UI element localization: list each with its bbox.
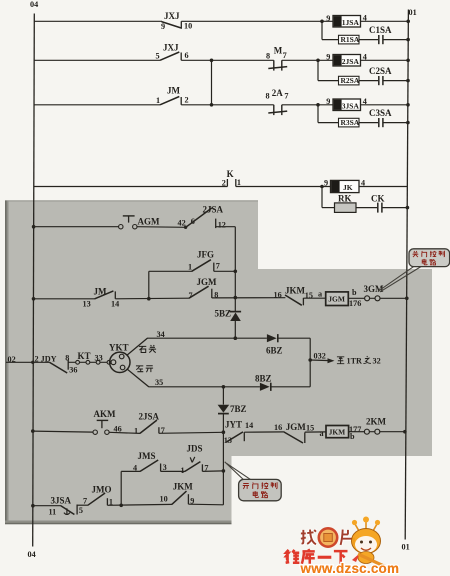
svg-text:JGM: JGM <box>328 295 345 304</box>
svg-text:7: 7 <box>83 496 87 505</box>
resistor R3SA <box>339 118 360 127</box>
svg-text:C3SA: C3SA <box>369 108 392 118</box>
node 04 bottom label <box>28 550 36 559</box>
gray region top edge line <box>5 200 258 202</box>
switch JM 13-14 <box>83 286 120 308</box>
pushbutton AGM <box>119 216 160 229</box>
svg-text:34: 34 <box>157 330 165 339</box>
svg-text:R1SA: R1SA <box>341 35 360 44</box>
svg-text:2: 2 <box>222 178 226 187</box>
diode 5BZ <box>215 298 242 340</box>
svg-text:2JSA: 2JSA <box>139 411 160 421</box>
label you-guan <box>139 345 156 353</box>
relay coil JKM (a-b 177) <box>326 425 361 441</box>
relay coil 1JSA <box>326 14 367 28</box>
svg-text:2 JDY: 2 JDY <box>35 354 57 363</box>
svg-text:7BZ: 7BZ <box>230 404 247 414</box>
svg-text:a: a <box>320 429 324 438</box>
wire R2SA to C2SA <box>359 80 378 82</box>
wire row1 left segment <box>34 20 162 22</box>
wire 8BZ to corner <box>271 386 310 388</box>
svg-text:3JSA: 3JSA <box>51 495 72 505</box>
switch JGM 16-15 lower <box>274 422 314 443</box>
wire 2JSA to JYT node <box>159 432 224 433</box>
svg-text:1: 1 <box>237 178 241 187</box>
svg-text:JDS: JDS <box>187 444 203 454</box>
svg-text:9: 9 <box>326 53 330 62</box>
wire YKT left-open blade <box>127 369 148 387</box>
svg-text:JMS: JMS <box>138 451 156 461</box>
node junction row1 <box>320 20 324 24</box>
wire JFG branch vertical <box>147 271 151 300</box>
svg-text:04: 04 <box>30 0 38 9</box>
wire row2 left segment <box>34 59 160 61</box>
switch JDS 1-7 <box>181 444 209 476</box>
svg-text:JMO: JMO <box>92 484 112 494</box>
relay coil JGM (a-b 176) <box>326 288 362 308</box>
switch JKM 10-9 <box>160 482 195 506</box>
svg-text:8: 8 <box>266 51 270 60</box>
wire node 032 output arrow <box>310 352 334 364</box>
watermark weiku yixia <box>286 549 348 564</box>
wire branch row2 down <box>318 60 339 80</box>
wire AKM row from left rail <box>31 429 93 433</box>
svg-text:1JSA: 1JSA <box>342 18 360 27</box>
svg-text:14: 14 <box>111 299 119 308</box>
svg-text:6: 6 <box>191 217 195 226</box>
wire JKM coil to 2KM <box>349 431 365 433</box>
svg-text:JKM: JKM <box>285 286 306 296</box>
contact M 8-7 <box>266 45 287 70</box>
capacitor C2SA <box>369 66 392 85</box>
wire 3GM to right rail <box>380 297 409 301</box>
svg-text:42: 42 <box>178 219 186 228</box>
svg-text:5: 5 <box>79 506 83 515</box>
wire row1 to relay 1JSA <box>181 20 333 22</box>
switch JXJ 9-10 <box>161 11 192 31</box>
svg-text:2KM: 2KM <box>366 417 387 427</box>
svg-text:RK: RK <box>338 194 352 204</box>
wire bottom row from left rail <box>31 504 61 508</box>
switch JFG 1-7 <box>149 250 220 272</box>
wire JFG to node <box>214 270 236 272</box>
capacitor C3SA <box>369 108 392 127</box>
svg-text:9: 9 <box>326 97 330 106</box>
svg-text:04: 04 <box>28 550 36 559</box>
contact 2A 8-7 <box>266 88 289 115</box>
diode 7BZ <box>218 404 247 432</box>
pushbutton AKM 46 <box>93 409 122 434</box>
svg-text:YKT: YKT <box>109 343 129 353</box>
svg-text:KT: KT <box>78 351 91 361</box>
wire K row to relay JK <box>236 185 331 189</box>
relay coil 3JSA <box>326 97 367 111</box>
wire JYT to JGM lower <box>244 431 284 433</box>
svg-text:JFG: JFG <box>197 250 214 260</box>
svg-text:4: 4 <box>133 463 137 472</box>
svg-text:9: 9 <box>324 178 328 187</box>
svg-text:01: 01 <box>409 8 417 17</box>
wire 3JSA to JMO <box>77 504 88 506</box>
svg-text:JGM: JGM <box>286 422 307 432</box>
wire R3SA to C3SA <box>359 122 378 124</box>
label zuo-kai <box>136 366 153 372</box>
wire row2 to rail <box>361 59 410 63</box>
resistor R2SA <box>339 76 360 85</box>
svg-text:3JSA: 3JSA <box>342 101 360 110</box>
svg-text:16: 16 <box>274 291 282 300</box>
svg-text:M: M <box>274 45 283 55</box>
wire row2 to relay 2JSA <box>282 59 333 63</box>
wire line 34 <box>147 330 267 339</box>
svg-text:www.dzsc.com: www.dzsc.com <box>300 561 400 576</box>
svg-text:11: 11 <box>49 507 57 516</box>
svg-text:01: 01 <box>402 543 410 552</box>
node 01 top label <box>409 8 417 17</box>
contact 3GM <box>364 284 385 301</box>
wire 02 row from edge <box>6 354 57 364</box>
switch JYT 13-14 <box>224 419 253 445</box>
switch 2JDY 8-36 <box>50 353 78 374</box>
svg-text:8BZ: 8BZ <box>255 374 272 384</box>
gray region bottom shadow edge <box>5 521 232 525</box>
wire JDS to vertical node <box>202 470 223 473</box>
wire JM row from left rail <box>32 297 95 301</box>
svg-text:6BZ: 6BZ <box>266 346 283 356</box>
relay coil 2JSA <box>326 53 367 67</box>
svg-text:CK: CK <box>371 194 385 204</box>
contact chain KT 33 <box>68 351 111 364</box>
master controller YKT <box>109 343 130 373</box>
svg-text:2: 2 <box>185 96 189 105</box>
callout box guanmen control circuit <box>378 249 450 292</box>
wire JK to rail <box>359 186 408 188</box>
svg-text:9: 9 <box>161 22 165 31</box>
svg-text:10: 10 <box>184 22 192 31</box>
svg-text:7: 7 <box>216 262 220 271</box>
wire left rail 04 <box>33 14 35 547</box>
svg-text:36: 36 <box>69 365 77 374</box>
capacitor CK <box>371 194 385 213</box>
switch 3JSA 11-5 <box>49 495 83 516</box>
wire row3 left segment <box>34 104 160 106</box>
svg-text:C1SA: C1SA <box>369 25 392 35</box>
wire vertical node 12 down <box>234 227 238 300</box>
svg-text:R3SA: R3SA <box>341 118 360 127</box>
svg-text:AGM: AGM <box>138 217 161 227</box>
svg-text:176: 176 <box>349 299 361 308</box>
resistor R1SA <box>339 35 360 44</box>
diode 8BZ <box>255 374 272 391</box>
wire 6BZ to corner <box>278 337 310 339</box>
svg-text:1: 1 <box>188 263 192 272</box>
svg-text:12: 12 <box>218 220 226 229</box>
contact 2KM <box>364 417 386 435</box>
svg-text:3: 3 <box>163 463 167 472</box>
svg-text:7: 7 <box>283 51 287 60</box>
wire 2JSA to corner <box>216 226 236 228</box>
switch JKM 16-15 <box>274 286 313 306</box>
wire vertical 35 to bottom <box>222 387 224 405</box>
resistor RK <box>335 194 357 213</box>
svg-text:16: 16 <box>274 423 282 432</box>
wire K row left segment <box>34 186 228 188</box>
svg-text:33: 33 <box>95 353 103 362</box>
wire 2KM to right rail <box>380 430 407 434</box>
relay coil JK <box>324 178 365 192</box>
wire bottom row to corner <box>188 503 223 506</box>
svg-text:2JSA: 2JSA <box>203 205 224 215</box>
wire AGM row from left rail <box>32 225 119 229</box>
svg-text:7: 7 <box>189 291 193 300</box>
wire JGM coil to 3GM <box>348 297 364 299</box>
svg-text:02: 02 <box>8 355 16 364</box>
wire C3SA to rail <box>383 121 410 125</box>
switch JMS 4-3 <box>121 451 166 472</box>
switch JMO 7-1 <box>83 484 113 506</box>
svg-text:10: 10 <box>160 495 168 504</box>
switch 2JSA 42-6-12 <box>178 205 226 230</box>
switch JXJ 5-6 <box>156 43 189 61</box>
svg-text:K: K <box>227 169 234 179</box>
wire row3 to relay 3JSA <box>282 103 333 107</box>
wire YKT right-close blade <box>127 338 147 355</box>
wire JGM to JKM <box>212 297 286 299</box>
wire row3 middle <box>181 104 274 106</box>
wire row1 to right rail <box>361 20 411 24</box>
svg-text:JK: JK <box>343 183 353 192</box>
svg-text:C2SA: C2SA <box>369 66 392 76</box>
wire branch K row down <box>322 187 335 208</box>
svg-text:AKM: AKM <box>94 409 117 419</box>
svg-text:JKM: JKM <box>173 482 194 492</box>
wire JGM to relay JKM <box>305 429 326 438</box>
svg-text:JYT: JYT <box>225 419 242 429</box>
svg-text:JXJ: JXJ <box>163 43 179 53</box>
wire vertical 34-35 junction <box>308 338 312 387</box>
gray scanned region <box>5 201 432 525</box>
svg-text:9: 9 <box>326 14 330 23</box>
svg-text:1: 1 <box>181 466 185 475</box>
wire JMO to JKM lower <box>107 503 172 506</box>
svg-text:7: 7 <box>284 91 288 100</box>
svg-text:8: 8 <box>65 353 69 362</box>
wire vertical row2-row3 <box>210 60 214 106</box>
svg-text:5BZ: 5BZ <box>215 309 232 319</box>
wire R1SA to C1SA <box>359 39 378 41</box>
wire C1SA to rail <box>383 38 410 42</box>
svg-text:032: 032 <box>314 352 326 361</box>
wire line 35 <box>149 378 260 389</box>
wire JMS to JDS <box>161 470 186 472</box>
wire row2 middle <box>181 59 274 63</box>
wire C2SA to rail <box>383 79 410 83</box>
svg-text:6: 6 <box>185 51 189 60</box>
svg-text:JGM: JGM <box>197 277 218 287</box>
wire row3 to rail <box>361 103 410 107</box>
svg-text:b: b <box>350 432 355 441</box>
wire branch row3 down <box>318 105 339 123</box>
svg-text:14: 14 <box>245 421 253 430</box>
wire AGM to 2JSA contact <box>137 226 187 229</box>
svg-text:8: 8 <box>266 91 270 100</box>
svg-text:13: 13 <box>83 300 91 309</box>
callout box kaimen control circuit <box>225 462 282 501</box>
watermark zhao chip pian <box>301 528 354 546</box>
watermark www.dzsc.com <box>300 561 400 576</box>
switch JGM 7-8 <box>189 277 219 300</box>
node 01 bottom label <box>402 543 410 552</box>
node 04 top label <box>30 0 38 9</box>
diode 6BZ <box>266 334 283 355</box>
wire JM to JGM <box>115 297 189 300</box>
svg-text:a: a <box>318 290 322 299</box>
wire JKM to relay JGM <box>303 290 325 299</box>
svg-text:1: 1 <box>134 426 138 435</box>
svg-text:32: 32 <box>373 357 381 366</box>
svg-text:1: 1 <box>156 96 160 105</box>
svg-text:1TR: 1TR <box>347 357 363 366</box>
wire branch row1 down <box>322 21 339 39</box>
switch 2JSA 1-7 lower <box>109 411 165 435</box>
svg-text:JXJ: JXJ <box>164 11 180 21</box>
svg-text:13: 13 <box>224 436 232 445</box>
svg-text:JM: JM <box>94 286 108 296</box>
wire RK to CK <box>356 207 377 209</box>
svg-text:2JSA: 2JSA <box>342 57 360 66</box>
wire vertical to JMS row and bottom row <box>222 430 226 504</box>
svg-text:JM: JM <box>167 86 181 96</box>
watermark mascot <box>352 517 392 570</box>
svg-text:R2SA: R2SA <box>341 76 360 85</box>
gray region left shadow edge <box>5 201 9 525</box>
wire JMS row vertical left <box>119 471 123 507</box>
switch JM 1-2 <box>156 86 189 106</box>
svg-text:15: 15 <box>306 423 314 432</box>
svg-text:JKM: JKM <box>329 427 346 436</box>
svg-text:5: 5 <box>156 52 160 61</box>
svg-text:b: b <box>352 288 357 297</box>
svg-text:2A: 2A <box>272 88 284 98</box>
label to 1TR pin 32 <box>337 356 381 365</box>
capacitor C1SA <box>369 25 392 44</box>
contact K 2-1 <box>222 169 241 187</box>
svg-text:35: 35 <box>155 378 163 387</box>
wire right rail 01 <box>405 10 408 540</box>
wire CK to rail <box>382 206 409 210</box>
